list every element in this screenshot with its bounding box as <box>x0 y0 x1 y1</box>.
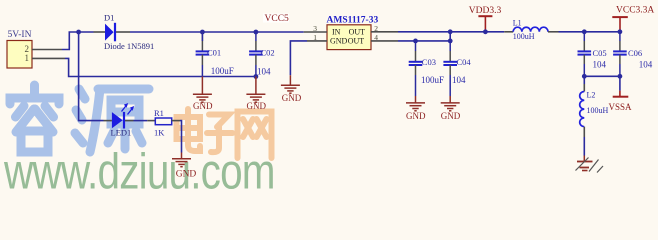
wire LED to R1 <box>134 120 148 122</box>
svg-text:GND: GND <box>193 101 213 111</box>
node junction C02 bottom <box>254 74 259 79</box>
LED LED1 arrows <box>122 103 135 115</box>
node junction C06 top <box>618 29 623 34</box>
node junction C02 top <box>254 30 259 35</box>
svg-text:GND: GND <box>247 101 267 111</box>
net label VCC5 <box>263 14 289 25</box>
node junction VDD3.3 tap <box>483 29 488 34</box>
svg-text:www.dziuu.com: www.dziuu.com <box>3 143 275 194</box>
resistor R1 pin right <box>172 120 180 122</box>
node junction C01 top <box>200 30 205 35</box>
svg-text:Diode 1N5891: Diode 1N5891 <box>104 41 154 51</box>
svg-text:R1: R1 <box>154 108 164 118</box>
regulator U1 pin 4 stub <box>371 40 398 42</box>
svg-text:104: 104 <box>639 60 653 70</box>
wire U1 pin1 to ground <box>290 41 307 75</box>
LED LED1 <box>112 112 124 129</box>
svg-text:100uF: 100uF <box>211 66 234 76</box>
svg-text:GND: GND <box>176 170 197 180</box>
connector J1 pin 2 stub <box>32 49 62 51</box>
capacitor C05 pin bottom <box>583 55 585 64</box>
svg-text:C01: C01 <box>207 47 221 57</box>
regulator U1 pin 1 stub <box>307 40 327 42</box>
wire analog ground rail <box>584 75 620 77</box>
svg-text:VSSA: VSSA <box>608 102 632 112</box>
inductor L2 pin bottom <box>583 127 585 137</box>
svg-text:OUT: OUT <box>349 28 366 37</box>
capacitor C03 pin bottom <box>415 65 417 75</box>
power port VCC3.3A <box>612 5 654 32</box>
power port VSSA <box>608 76 632 112</box>
svg-text:GND: GND <box>282 93 302 103</box>
svg-text:IN: IN <box>332 28 341 37</box>
svg-text:VDD3.3: VDD3.3 <box>469 6 502 16</box>
svg-text:L1: L1 <box>513 19 522 28</box>
capacitor C04 pin top <box>449 41 451 51</box>
regulator U1 pin 2 stub <box>371 31 398 33</box>
diode D1 pin right <box>116 31 130 33</box>
regulator U1 pin 3 stub <box>304 31 327 33</box>
ground GND under C01 <box>193 77 212 103</box>
ground GND under C02 <box>246 77 265 103</box>
resistor R1 pin left <box>147 120 155 122</box>
capacitor C05 pin top <box>583 32 585 41</box>
svg-text:VCC5: VCC5 <box>265 14 290 24</box>
capacitor C02 pin bottom <box>255 55 257 65</box>
watermark char YUAN <box>75 89 149 152</box>
node junction VSSA tap <box>618 74 623 79</box>
svg-text:C05: C05 <box>593 48 607 58</box>
svg-text:GND: GND <box>406 111 426 121</box>
diode D1 pin left <box>94 31 106 33</box>
capacitor C03 pin top <box>415 41 417 51</box>
capacitor C05 <box>578 51 592 54</box>
capacitor C06 pin top <box>619 32 621 41</box>
node junction C05 top <box>582 29 587 34</box>
svg-text:4: 4 <box>374 33 378 42</box>
svg-text:OUT: OUT <box>348 37 365 46</box>
capacitor C06 <box>613 51 627 54</box>
svg-text:104: 104 <box>257 67 271 77</box>
svg-text:C03: C03 <box>422 57 436 67</box>
svg-text:3: 3 <box>313 24 317 33</box>
svg-text:VCC3.3A: VCC3.3A <box>616 5 654 15</box>
svg-text:AMS1117-33: AMS1117-33 <box>327 15 379 25</box>
regulator U1 body <box>327 25 371 50</box>
inductor L2 pin top <box>583 76 585 84</box>
watermark char ZI <box>207 115 233 153</box>
ground GND under C03 <box>406 96 425 111</box>
svg-text:104: 104 <box>593 60 607 70</box>
node junction LED branch on top rail <box>76 30 81 35</box>
ground GND under C04 <box>441 96 460 111</box>
wire output top rail <box>398 31 620 33</box>
capacitor C03 <box>409 62 423 65</box>
wire pin1 to ground rail <box>65 58 256 76</box>
node junction L2 tap <box>582 74 587 79</box>
inductor L1 pin left <box>504 31 513 33</box>
svg-text:GND: GND <box>330 37 348 46</box>
wire R1 to ground <box>180 121 182 153</box>
svg-text:L2: L2 <box>587 90 596 99</box>
svg-text:1K: 1K <box>154 128 165 138</box>
svg-text:LED1: LED1 <box>111 128 132 138</box>
diode D1 <box>105 23 115 42</box>
svg-text:1: 1 <box>313 33 317 42</box>
watermark char RONG <box>10 85 59 152</box>
connector J1 5V-IN <box>7 41 32 69</box>
svg-text:C06: C06 <box>628 48 642 58</box>
svg-text:100uF: 100uF <box>421 75 444 85</box>
capacitor C01 pin bottom <box>201 55 203 65</box>
svg-text:C04: C04 <box>457 57 472 67</box>
svg-text:GND: GND <box>441 111 461 121</box>
capacitor C01 pin top <box>201 32 203 51</box>
capacitor C01 <box>196 51 210 54</box>
power port VDD3.3 <box>469 6 502 32</box>
watermark char WANG <box>238 112 272 159</box>
svg-text:5V-IN: 5V-IN <box>8 30 32 40</box>
watermark char DIAN <box>177 109 201 151</box>
svg-text:100uH: 100uH <box>587 106 609 115</box>
svg-text:C02: C02 <box>261 47 275 57</box>
capacitor C06 pin bottom <box>619 55 621 64</box>
capacitor C02 pin top <box>255 41 257 51</box>
ground GND under U1 pin1 <box>281 75 300 93</box>
resistor R1 <box>155 118 171 125</box>
wire tie rails at C04 <box>449 32 451 41</box>
node junction C04 top rail <box>448 29 453 34</box>
connector J1 pin 1 stub <box>32 57 65 59</box>
svg-text:100uH: 100uH <box>513 32 535 41</box>
LED LED1 pin right <box>125 120 134 122</box>
wire pin2 to top rail <box>62 32 94 50</box>
wire LED branch vertical <box>79 32 104 121</box>
svg-text:D1: D1 <box>104 13 114 23</box>
node junction C03 <box>413 39 418 44</box>
ground earth under L2 <box>576 156 604 173</box>
wire top rail diode to AMS input <box>130 31 304 33</box>
ground GND under R1 <box>172 153 191 167</box>
svg-text:2: 2 <box>374 24 378 33</box>
capacitor C04 <box>443 62 457 65</box>
capacitor C04 pin bottom <box>449 65 451 75</box>
svg-text:104: 104 <box>452 75 466 85</box>
capacitor C02 <box>249 51 263 54</box>
inductor L2 <box>580 92 585 127</box>
LED LED1 pin left <box>104 120 112 122</box>
watermark url text <box>3 143 275 199</box>
wire output second rail pin4 <box>398 40 450 42</box>
inductor L1 pin right <box>548 31 559 33</box>
wire L2 to earth <box>583 137 585 156</box>
inductor L1 <box>513 27 548 32</box>
node junction C04 second rail <box>448 39 453 44</box>
svg-text:1: 1 <box>25 53 30 63</box>
